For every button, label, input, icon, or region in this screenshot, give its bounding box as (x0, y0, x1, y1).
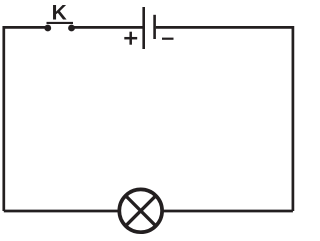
svg-text:K: K (52, 2, 67, 25)
